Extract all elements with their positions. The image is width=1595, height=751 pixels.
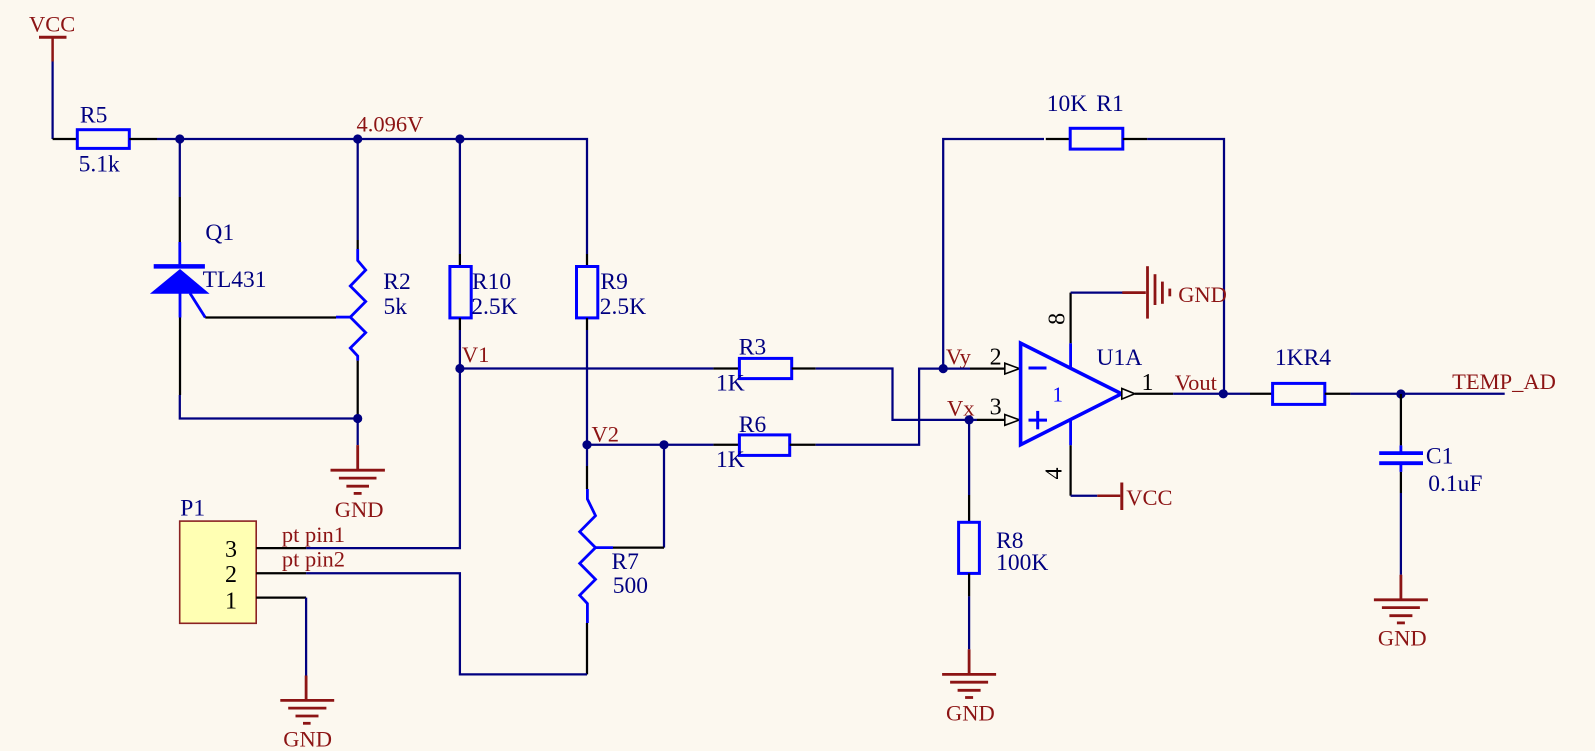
svg-text:GND: GND [335,497,384,522]
pin 4 (U1A V-) [1069,420,1072,445]
wire top bus 4.096V [157,139,587,254]
ground GND (under C1) [1374,575,1428,651]
svg-text:pt pin1: pt pin1 [282,522,345,547]
svg-text:GND: GND [1378,626,1427,651]
power VCC (top-left) [29,12,75,62]
pin 1 (U1A output) [1122,389,1173,400]
svg-text:3: 3 [990,395,1002,421]
svg-text:2.5K: 2.5K [471,294,517,320]
pin P1-1 [256,596,306,598]
ground GND (below P1) [280,676,334,751]
wire R3 to Vx [816,369,969,420]
transistor Q1 TL431 [151,197,208,318]
svg-text:R6: R6 [739,412,767,438]
junction node Vout [1219,389,1228,398]
svg-text:2: 2 [990,345,1002,371]
wire Vout to R4 [1223,393,1250,395]
wire R6 to Vy [816,369,944,445]
resistor R1 [1046,128,1147,149]
wire R10 bottom to V1 to P1 pin3 [306,330,460,548]
resistor R4 [1250,383,1350,404]
svg-text:2.5K: 2.5K [600,294,646,320]
svg-text:1K: 1K [716,370,745,396]
wire R4 to TEMP_AD [1350,393,1504,395]
svg-text:Vy: Vy [946,344,972,369]
svg-text:4.096V: 4.096V [357,112,424,137]
junction top bus / R10 [455,134,464,143]
wire feedback left (Vy up to R1) [943,139,1044,369]
wire VCC to R5 [51,62,53,140]
svg-text:TL431: TL431 [203,267,267,293]
svg-text:VCC: VCC [29,12,75,37]
svg-text:5k: 5k [384,294,408,320]
svg-text:1KR4: 1KR4 [1275,345,1331,371]
svg-text:C1: C1 [1426,444,1453,470]
svg-text:1K: 1K [716,447,745,473]
svg-text:R10: R10 [472,269,511,295]
pin 3 (U1A non-inverting) [977,415,1020,426]
wire node V1 to R3 [460,367,714,369]
junction GND node under R2 [353,414,362,423]
ground GND (sideways, pin 8) [1122,266,1227,318]
svg-text:R7: R7 [612,549,640,575]
junction node Vy [939,364,948,373]
wire R7 tap vertical [663,445,665,548]
wire P1 pin1 to GND [305,598,307,676]
wire output to Vout [1173,393,1224,395]
pin P1-2 [256,572,306,574]
svg-text:GND: GND [946,701,995,726]
wire Vx down to R8 [968,420,970,495]
junction top bus / Q1 [175,134,184,143]
wire Vy stub [943,367,970,369]
svg-text:Vx: Vx [947,395,975,420]
svg-text:8: 8 [1045,313,1071,325]
resistor R6 [713,435,815,456]
junction node TEMP_AD / C1 [1396,389,1405,398]
svg-text:Q1: Q1 [205,220,234,246]
ground GND (under R2) [331,445,385,522]
svg-text:VCC: VCC [1126,485,1172,510]
wire Q1 anode to GND junction [180,395,358,419]
svg-text:1: 1 [1053,383,1064,407]
op-amp U1A [1021,343,1122,445]
ground GND (under R8) [942,649,996,725]
svg-text:P1: P1 [180,496,205,522]
wire Q1 cathode branch [179,139,181,197]
capacitor C1 [1379,394,1423,493]
svg-text:0.1uF: 0.1uF [1428,471,1482,497]
pin P1-3 [256,547,306,549]
svg-text:GND: GND [1178,282,1227,307]
resistor R7 [580,445,664,675]
resistor R9 [577,254,598,330]
svg-text:4: 4 [1042,468,1068,480]
pin 8 (U1A V+) [1069,343,1072,367]
wire pin8 to GND [1071,291,1124,293]
wire feedback right (R1 down to Vout) [1147,139,1224,394]
svg-text:R3: R3 [739,334,766,360]
resistor R2 [336,240,366,419]
svg-text:R9: R9 [600,269,627,295]
wire C1 to GND [1400,493,1402,575]
svg-text:V2: V2 [592,422,620,447]
svg-text:V1: V1 [462,342,490,367]
resistor R8 [959,495,980,596]
svg-text:R1: R1 [1096,91,1123,117]
pin Q1 ref [205,316,336,318]
junction node Vx [965,415,974,424]
junction node V2 [582,440,591,449]
pin Q1 anode [179,318,181,396]
svg-text:5.1k: 5.1k [79,152,120,178]
pin 2 (U1A inverting) [970,363,1020,374]
wire stub to GND [357,419,359,446]
svg-text:3: 3 [225,537,237,563]
svg-text:100K: 100K [996,550,1048,576]
wire Vx stub [969,419,977,421]
wire R8 to GND [968,596,970,649]
resistor R10 [450,254,471,330]
resistor R3 [713,358,815,378]
wire R10 top branch [459,139,461,254]
svg-text:1: 1 [1142,370,1154,396]
wire node V2 to R6 [587,444,713,446]
junction node V1 [455,364,464,373]
wire P1 pin2 to R7 bottom [306,573,587,674]
svg-text:Vout: Vout [1175,370,1218,395]
svg-text:pt pin2: pt pin2 [282,547,345,572]
svg-text:U1A: U1A [1097,345,1143,371]
svg-text:GND: GND [283,727,332,751]
connector P1 [180,521,257,623]
svg-text:R2: R2 [383,269,410,295]
wire pin4 to VCC [1071,495,1098,497]
wire R9 bottom to V2 [586,330,588,445]
svg-text:1: 1 [225,588,237,614]
svg-text:R5: R5 [80,103,107,129]
resistor R5 [53,130,157,149]
svg-text:TEMP_AD: TEMP_AD [1452,369,1556,394]
wire R2 top branch [357,139,359,240]
junction top bus / R2 [353,134,362,143]
junction R7 tap node [659,440,668,449]
svg-text:500: 500 [613,573,648,599]
power VCC (pin 4) [1097,483,1172,511]
svg-text:2: 2 [225,562,237,588]
svg-text:10K: 10K [1047,91,1088,117]
